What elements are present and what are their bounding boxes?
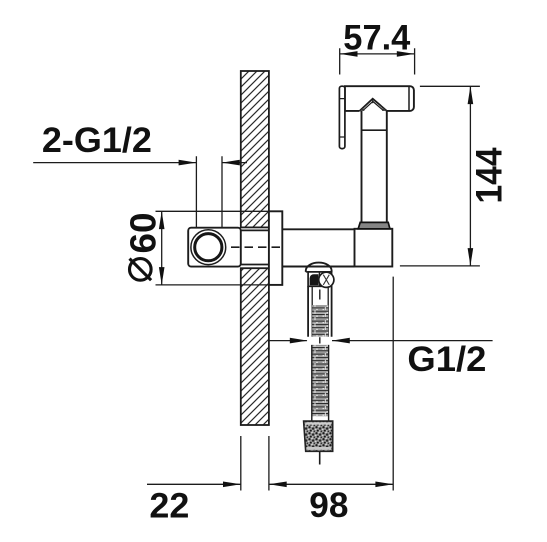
dimension 144 (right): [400, 86, 510, 266]
svg-text:98: 98: [309, 486, 348, 525]
svg-text:G1/2: G1/2: [407, 340, 486, 379]
hose centerline dashes: [319, 290, 321, 344]
wall upper hatched section: [241, 71, 269, 227]
wall escutcheon plate: [269, 211, 282, 285]
svg-text:144: 144: [469, 147, 510, 203]
hose upper shell: [308, 286, 332, 337]
hose braid upper: [312, 305, 328, 337]
holder block: [355, 229, 393, 267]
valve inlet circle (outer): [191, 230, 226, 265]
dimension 22 (wall thickness): [147, 436, 269, 525]
hose end fitting (knurled cone): [304, 421, 333, 451]
hose connector dome: [306, 263, 332, 272]
sprayer handle connector nut: [358, 222, 390, 228]
svg-text:60: 60: [123, 213, 164, 254]
mounting arm: [282, 229, 354, 266]
wall lower hatched section: [241, 268, 269, 425]
supply tube through wall: [241, 230, 269, 264]
concealed valve body (in-wall): [188, 228, 241, 267]
sprayer head body: [345, 86, 414, 111]
dimension 2-G1/2 (top left, ports): [33, 121, 247, 229]
centerline (dashed) through valve: [231, 246, 282, 248]
dimension 57.4 (top): [340, 18, 415, 74]
label G1/2 (hose thread): [269, 338, 493, 379]
hose tail line: [319, 451, 321, 464]
sprayer nozzle face plate: [339, 86, 345, 148]
valve inlet circle (inner thick): [195, 234, 222, 261]
svg-text:2-G1/2: 2-G1/2: [42, 121, 152, 160]
sprayer handle tube: [362, 111, 387, 222]
hose braid lower: [312, 345, 329, 421]
dimension diameter 60 (left): [123, 211, 269, 285]
svg-text:22: 22: [149, 486, 189, 525]
head neck transition (cone): [360, 99, 387, 111]
dimension 98 (wall to hose): [269, 277, 393, 525]
hose connector nut band: [308, 272, 334, 288]
svg-text:57.4: 57.4: [343, 18, 411, 57]
arm bottom edge visible through dome: [303, 266, 334, 268]
